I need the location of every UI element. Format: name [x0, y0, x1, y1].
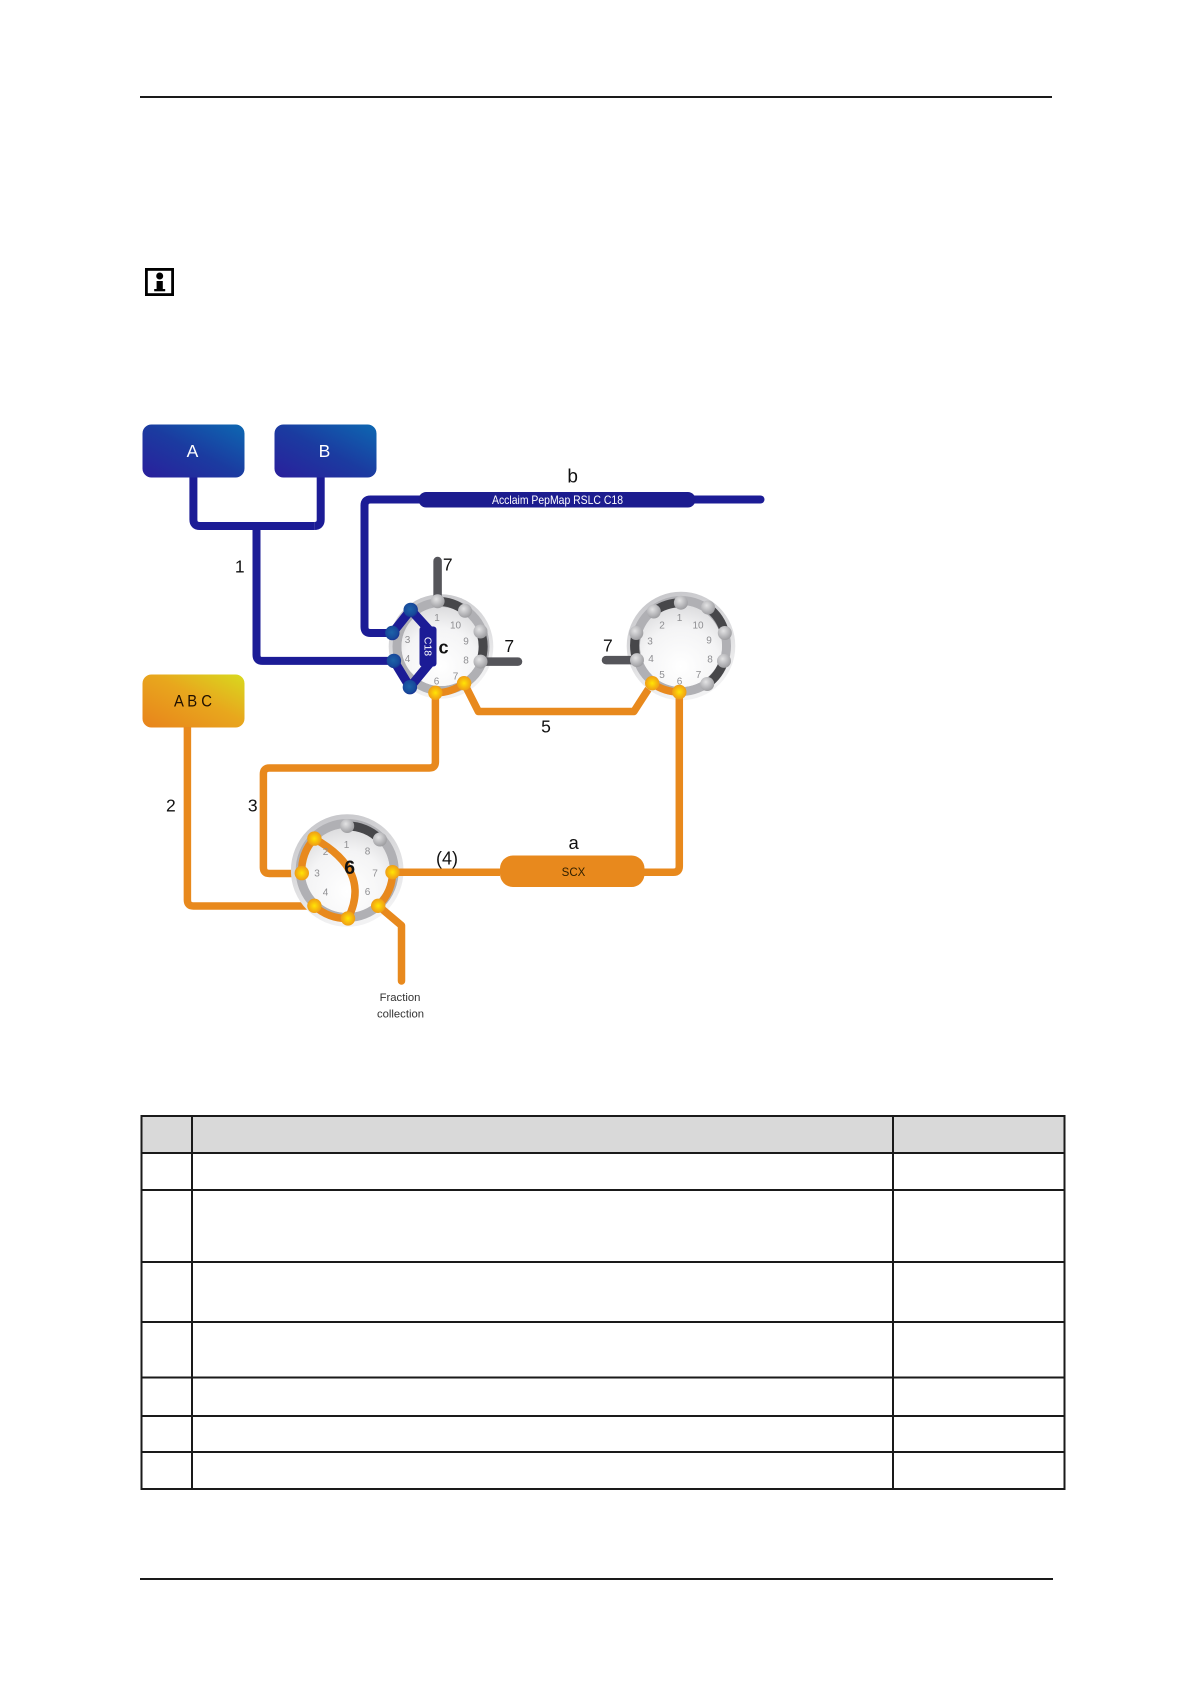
left valve gray port balls 1,10,9,8 — [431, 594, 445, 608]
svg-text:3: 3 — [248, 796, 258, 816]
wire 2: solvent box to bottom valve port 4 — [187, 727, 314, 906]
separation column Acclaim PepMap RSLC C18 — [419, 492, 696, 508]
svg-text:1: 1 — [344, 840, 350, 851]
svg-text:A: A — [187, 441, 199, 461]
svg-text:9: 9 — [706, 636, 712, 647]
svg-text:collection: collection — [377, 1009, 424, 1021]
bottom valve port numbers — [314, 840, 378, 899]
svg-text:2: 2 — [659, 621, 665, 632]
svg-text:10: 10 — [450, 621, 462, 632]
bottom valve orange interior channel 2-5 — [314, 839, 355, 919]
wire: pump A outlet — [193, 477, 314, 526]
svg-text:3: 3 — [314, 869, 320, 880]
bottom valve orange rotor arc 6-7 — [378, 872, 392, 906]
left valve port numbers — [405, 613, 470, 688]
bottom valve orange rotor arc 2-3 — [302, 839, 315, 874]
svg-text:7: 7 — [696, 670, 702, 681]
svg-text:C18: C18 — [421, 637, 433, 656]
TABLE — [141, 1115, 1066, 1490]
right valve dark rotor arc 10-9 — [708, 608, 725, 634]
orange ball left valve port 6 — [428, 686, 442, 700]
svg-text:(4): (4) — [436, 848, 458, 868]
svg-text:Fraction: Fraction — [380, 992, 421, 1004]
left valve dark rotor arc 1-10 — [438, 601, 465, 611]
left valve dark rotor arc 9-8 — [481, 632, 484, 662]
svg-text:6: 6 — [365, 887, 371, 898]
waste line 7 (right valve port 4) — [606, 656, 637, 665]
svg-text:1: 1 — [434, 613, 440, 624]
orange ball right valve port 5 — [645, 676, 659, 690]
orange ball left valve port 7 — [457, 676, 471, 690]
wire 3: left valve port 6 to bottom valve port 3 — [263, 693, 435, 874]
wire 5: left valve port 7 to right valve port 5 — [464, 683, 652, 711]
top header rule — [140, 96, 1052, 98]
right valve dark rotor arc 8-7 — [707, 661, 724, 684]
svg-text:7: 7 — [443, 555, 453, 575]
right valve orange rotor 5-6 — [652, 683, 679, 692]
svg-text:A B C: A B C — [174, 692, 212, 711]
svg-text:4: 4 — [323, 888, 329, 899]
pump box A — [143, 425, 245, 478]
right valve port numbers — [647, 613, 713, 688]
trap column C18 assembly on left valve — [385, 603, 436, 695]
bottom valve (valve 6) body — [291, 814, 404, 927]
wire: pump B outlet — [314, 477, 321, 526]
svg-text:8: 8 — [463, 656, 469, 667]
svg-text:1: 1 — [677, 613, 683, 624]
waste line 7 (right of left valve) — [481, 657, 519, 666]
svg-text:7: 7 — [603, 635, 613, 655]
right valve gray port balls — [647, 605, 661, 619]
wire (4): bottom valve port 7 to SCX column — [393, 868, 501, 876]
solvent box A B C — [143, 675, 245, 728]
svg-text:6: 6 — [344, 857, 355, 879]
svg-text:2: 2 — [166, 795, 176, 815]
svg-text:B: B — [319, 441, 331, 461]
left valve (valve c) body — [389, 594, 494, 699]
svg-text:1: 1 — [235, 556, 245, 576]
svg-text:8: 8 — [707, 655, 713, 666]
svg-text:7: 7 — [504, 636, 514, 656]
pump box B — [275, 425, 377, 478]
svg-text:Acclaim PepMap RSLC C18: Acclaim PepMap RSLC C18 — [492, 493, 623, 507]
svg-text:8: 8 — [365, 847, 371, 858]
svg-text:9: 9 — [463, 637, 469, 648]
svg-text:6: 6 — [677, 677, 683, 688]
svg-text:2: 2 — [323, 847, 329, 858]
right valve dark rotor arc 2-1 — [654, 603, 681, 612]
wire: valve port 3 to separation column — [365, 500, 421, 634]
waste line 7 (top) — [433, 561, 442, 601]
svg-text:5: 5 — [541, 716, 551, 736]
svg-text:b: b — [567, 466, 578, 487]
svg-text:c: c — [438, 638, 448, 658]
bottom valve orange port balls 2,3,4,5,6,7 — [307, 831, 321, 845]
orange ball right valve port 6 — [672, 685, 686, 699]
wire: right valve port 6 down to SCX column — [644, 692, 679, 872]
wire: merged A+B down to valve port 4 (line 1) — [257, 524, 394, 661]
svg-text:a: a — [568, 832, 579, 853]
right valve dark rotor arc 3-4 — [635, 633, 637, 660]
info note icon — [146, 269, 172, 294]
svg-text:7: 7 — [372, 869, 378, 880]
footer rule — [140, 1578, 1053, 1580]
svg-text:10: 10 — [692, 621, 704, 632]
wire: bottom valve port 6 to fraction collection — [378, 906, 401, 981]
trap column SCX — [500, 856, 645, 888]
svg-text:4: 4 — [648, 654, 654, 665]
svg-text:3: 3 — [405, 635, 411, 646]
bottom valve dark rotor arc 1-8 — [347, 826, 380, 840]
right valve body — [627, 592, 736, 701]
svg-text:SCX: SCX — [562, 867, 586, 879]
svg-text:4: 4 — [405, 654, 411, 665]
svg-text:3: 3 — [647, 637, 653, 648]
left valve orange rotor 6-7 — [435, 683, 464, 693]
svg-text:5: 5 — [659, 670, 665, 681]
bottom valve orange rotor arc 4-5 — [314, 906, 348, 919]
column b outlet line — [692, 496, 761, 504]
bottom valve gray port balls 1,8 — [340, 819, 354, 833]
